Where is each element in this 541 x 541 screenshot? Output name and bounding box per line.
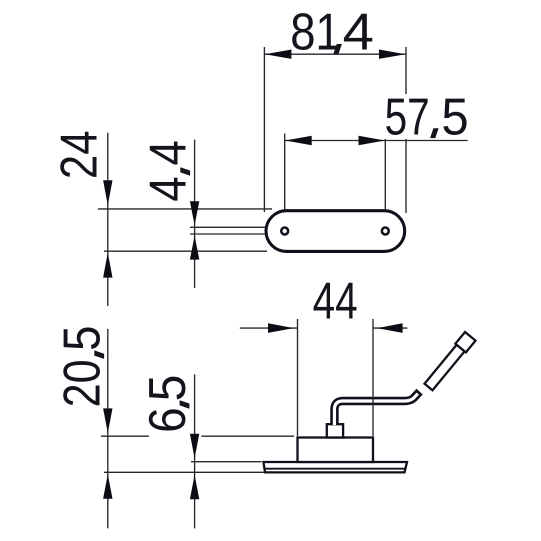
- svg-text:4: 4: [140, 140, 198, 165]
- svg-text:5: 5: [139, 375, 197, 402]
- svg-text:4: 4: [343, 3, 374, 61]
- svg-text:57: 57: [385, 89, 430, 147]
- svg-text:24: 24: [51, 131, 109, 180]
- svg-text:6: 6: [139, 407, 197, 433]
- svg-text:81: 81: [290, 3, 341, 61]
- svg-text:5: 5: [54, 326, 112, 351]
- svg-text:5: 5: [441, 89, 468, 147]
- svg-text:20: 20: [54, 359, 112, 407]
- svg-text:4: 4: [140, 176, 198, 201]
- svg-text:44: 44: [313, 273, 358, 331]
